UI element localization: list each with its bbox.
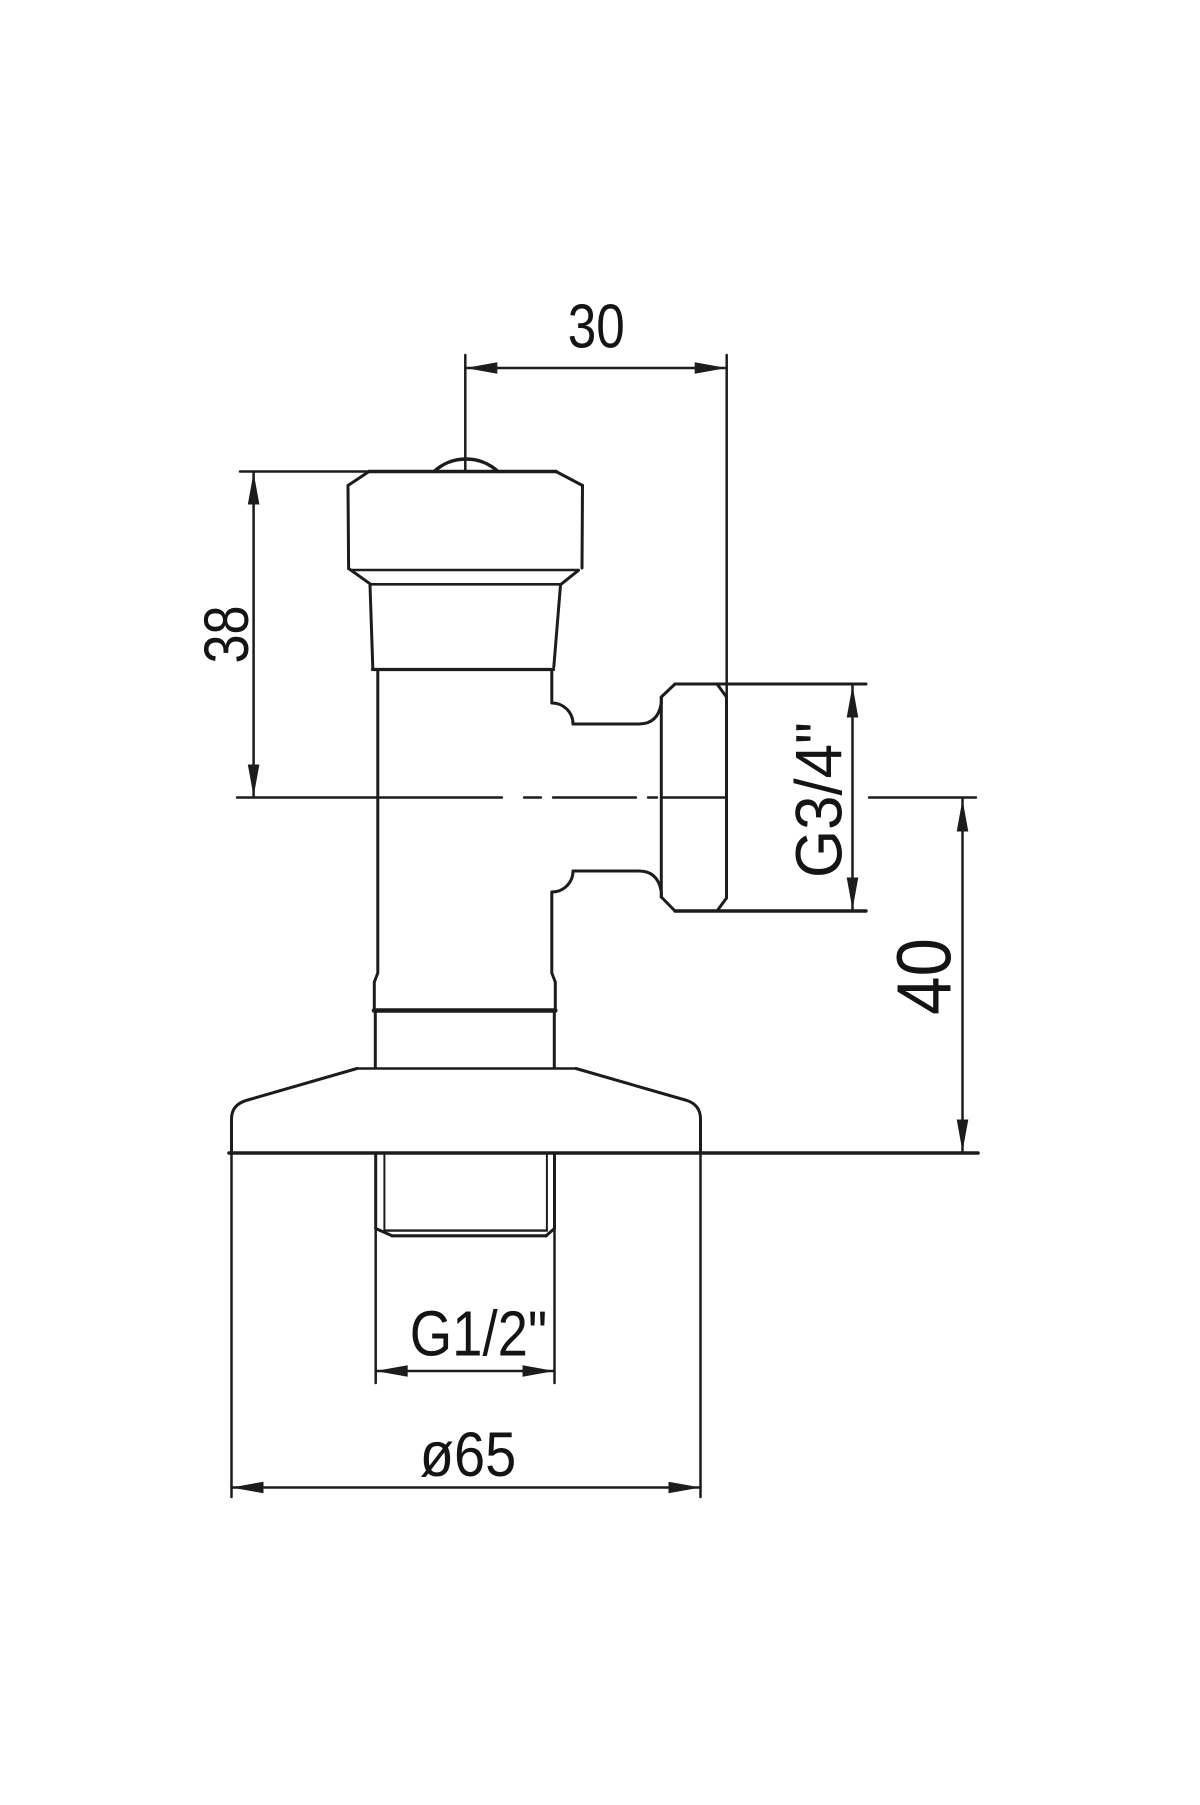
spigot thread core right	[546, 1155, 548, 1231]
body left edge lower	[374, 1012, 377, 1068]
flange top plateau	[357, 1067, 576, 1070]
dimension G3/4 line	[851, 686, 854, 909]
handle right edge	[581, 486, 585, 569]
body right edge upper with outlet fillets	[552, 672, 573, 725]
dimension diameter 65 right extension line	[699, 1155, 702, 1497]
bonnet right edge	[554, 585, 561, 667]
spigot thread outer left	[374, 1154, 377, 1229]
fitting bottom edge and G3/4 bottom extension line	[675, 909, 866, 912]
spigot thread outer right	[553, 1154, 556, 1229]
dimension 30 right arrowhead	[695, 362, 727, 374]
handle bottom edge	[352, 569, 579, 572]
dimension 40 line	[961, 799, 964, 1151]
dimension 40 top arrowhead	[957, 800, 969, 832]
dimension G1/2 line	[376, 1370, 555, 1373]
flange bottom edge and 40 bottom extension line	[229, 1151, 978, 1155]
dimension 30 left arrowhead	[465, 362, 497, 374]
spigot bottom-left chamfer	[376, 1229, 392, 1236]
body right edge below outlet	[552, 871, 573, 1009]
dimension diameter 65 left extension line	[230, 1155, 233, 1497]
bonnet bottom edge	[373, 668, 554, 671]
handle top-right chamfer	[556, 472, 583, 486]
handle bottom-right chamfer	[561, 570, 579, 584]
dimension diameter 65 right arrowhead	[669, 1482, 701, 1494]
fitting bottom-left chamfer	[661, 897, 675, 911]
dimension diameter 65 line	[232, 1486, 701, 1489]
dimension G1/2 left extension line	[374, 1229, 377, 1383]
fitting top edge and G3/4 top extension line	[675, 683, 866, 686]
body right edge lower	[553, 1012, 556, 1068]
fitting left face	[660, 697, 663, 897]
centerline dash-dot	[237, 796, 976, 798]
dimension 30 left extension line	[464, 355, 467, 471]
spigot bottom face	[392, 1234, 546, 1237]
dimension 38 top arrowhead	[248, 473, 260, 505]
dimension G1/2 right arrowhead	[523, 1365, 555, 1377]
dimension G3/4 top arrowhead	[847, 686, 859, 718]
handle screw dome	[434, 459, 498, 472]
fitting right edge	[725, 697, 728, 898]
flange left slope and edge	[232, 1069, 358, 1153]
dimension G1/2 right extension line	[553, 1229, 556, 1383]
svg-text:40: 40	[882, 938, 968, 1015]
dimension 40 bottom arrowhead	[957, 1120, 969, 1152]
fitting top-right chamfer	[717, 684, 727, 697]
flange right slope and edge	[576, 1069, 701, 1153]
handle top edge	[369, 470, 556, 473]
outlet bottom edge	[573, 871, 661, 897]
svg-text:G1/2": G1/2"	[410, 1298, 548, 1370]
fitting top-left chamfer	[661, 684, 675, 697]
fitting bottom-right chamfer	[717, 898, 727, 911]
body joint line	[374, 1008, 555, 1013]
spigot thread core bottom	[384, 1229, 547, 1231]
dimension G3/4 bottom arrowhead	[847, 878, 859, 910]
bonnet left edge	[370, 585, 373, 668]
dimension diameter 65 left arrowhead	[232, 1482, 264, 1494]
dimension 30 line	[465, 367, 726, 370]
svg-text:ø65: ø65	[420, 1420, 517, 1490]
handle left edge	[347, 486, 351, 569]
svg-text:30: 30	[568, 293, 625, 362]
dimension 38 top extension line	[240, 470, 369, 473]
dimension 38 line	[252, 472, 255, 797]
dimension G1/2 left arrowhead	[376, 1365, 408, 1377]
svg-text:G3/4": G3/4"	[782, 722, 856, 878]
handle bottom-left chamfer	[349, 569, 371, 585]
dimension 30 right extension line	[725, 355, 728, 697]
body left edge upper	[374, 672, 378, 1010]
spigot thread core left	[383, 1155, 385, 1231]
spigot bottom-right chamfer	[546, 1229, 555, 1236]
bonnet top edge	[371, 583, 561, 586]
handle top-left chamfer	[348, 472, 369, 486]
dimension 38 bottom arrowhead	[248, 765, 260, 797]
outlet top edge	[573, 697, 661, 724]
svg-text:38: 38	[192, 606, 262, 664]
